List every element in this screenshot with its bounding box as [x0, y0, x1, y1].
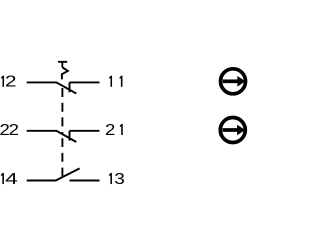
- NC contact 21-22: moving blade: [56, 131, 76, 142]
- NC contact 11-12: moving blade: [56, 82, 76, 93]
- mechanical linkage (dashed, span contact 1 to 2): [61, 88, 63, 135]
- mechanical linkage (dashed, span contact 2 to 3): [61, 138, 63, 176]
- NO contact 13-14: moving blade: [56, 168, 80, 180]
- terminal label 21: [105, 121, 123, 138]
- terminal label 13: [109, 170, 125, 188]
- terminal label 11: [109, 76, 122, 87]
- terminal label 22: [0, 121, 19, 138]
- svg-text:2: 2: [9, 121, 19, 138]
- NC contact 21-22: right wire (terminal 21): [70, 130, 100, 132]
- NC contact 11-12: right wire (terminal 11): [70, 81, 100, 83]
- terminal label 14: [1, 170, 18, 188]
- svg-text:2: 2: [105, 121, 115, 138]
- NC contact 21-22: fixed contact post: [69, 131, 71, 141]
- actuator T-handle: [58, 62, 67, 68]
- svg-text:4: 4: [5, 170, 18, 188]
- latch zigzag: [62, 67, 68, 79]
- circled arrow 2 (direction of actuation): [220, 118, 245, 143]
- NO contact 13-14: left wire (terminal 14): [27, 180, 57, 182]
- NC contact 11-12: left wire (terminal 12): [27, 81, 57, 83]
- svg-text:2: 2: [5, 72, 16, 90]
- terminal label 12: [1, 72, 16, 90]
- NO contact 13-14: right wire (terminal 13): [70, 180, 100, 182]
- svg-text:3: 3: [114, 170, 125, 188]
- NC contact 11-12: fixed contact post: [69, 82, 71, 92]
- circled arrow 1 (direction of actuation): [221, 69, 246, 94]
- NC contact 21-22: left wire (terminal 22): [27, 130, 57, 132]
